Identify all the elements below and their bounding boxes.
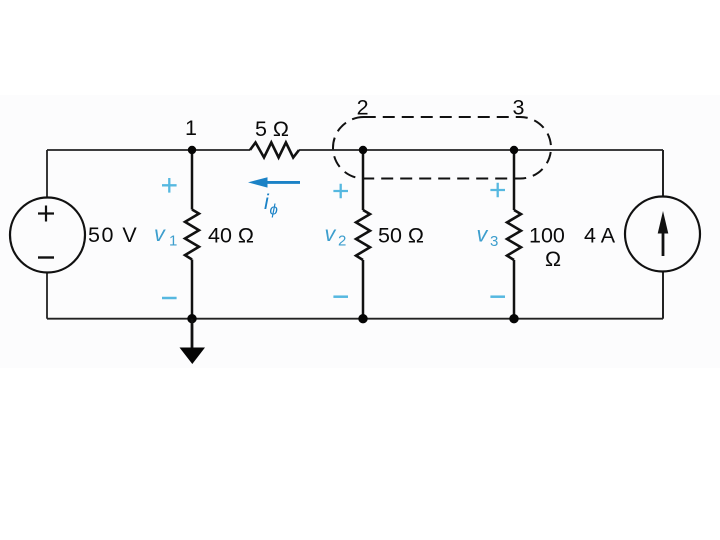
bottom node dot c bbox=[509, 314, 518, 323]
plus v2 bbox=[333, 184, 348, 199]
wire right vertical top bbox=[662, 150, 664, 197]
wire left vertical top bbox=[46, 150, 48, 198]
wire branch node3 down bbox=[513, 150, 516, 210]
svg-text:5 Ω: 5 Ω bbox=[255, 117, 289, 141]
wire branch node1 lower bbox=[191, 260, 194, 319]
plus v1 bbox=[162, 178, 177, 193]
svg-text:2: 2 bbox=[357, 96, 369, 120]
wire top rail right segment bbox=[299, 149, 663, 151]
svg-text:100: 100 bbox=[529, 224, 565, 248]
voltage source V 50V bbox=[10, 198, 85, 273]
node 3 dot bbox=[510, 146, 518, 154]
ground bbox=[191, 319, 194, 349]
bottom node dot a bbox=[187, 314, 196, 323]
dashed supernode boundary bbox=[333, 117, 551, 179]
svg-text:3: 3 bbox=[513, 96, 525, 120]
node 2 dot bbox=[359, 146, 367, 154]
svg-text:4 A: 4 A bbox=[584, 224, 616, 248]
svg-text:50 Ω: 50 Ω bbox=[378, 224, 424, 248]
svg-text:1: 1 bbox=[169, 233, 177, 250]
resistor R3 100ohm bbox=[507, 210, 521, 260]
minus v2 bbox=[333, 295, 348, 298]
current arrow i_phi bbox=[266, 181, 300, 184]
resistor R 5ohm bbox=[250, 143, 299, 158]
wire branch node3 lower bbox=[513, 260, 516, 319]
svg-text:v: v bbox=[325, 222, 337, 246]
svg-text:v: v bbox=[477, 223, 489, 247]
minus v1 bbox=[162, 297, 177, 300]
resistor R2 50ohm bbox=[356, 210, 370, 260]
plus v3 bbox=[490, 183, 505, 198]
wire left vertical bottom bbox=[46, 272, 48, 319]
wire right vertical bottom bbox=[662, 272, 664, 319]
svg-text:v: v bbox=[154, 222, 166, 246]
current source I 4A bbox=[625, 197, 700, 272]
svg-text:3: 3 bbox=[490, 233, 498, 250]
wire branch node2 lower bbox=[362, 260, 365, 319]
bottom node dot b bbox=[358, 314, 367, 323]
wire branch node2 down bbox=[362, 150, 365, 210]
svg-text:2: 2 bbox=[338, 233, 346, 250]
resistor R1 40ohm bbox=[185, 210, 199, 260]
svg-text:50 V: 50 V bbox=[88, 223, 138, 247]
svg-text:Ω: Ω bbox=[545, 247, 561, 271]
node 1 dot bbox=[188, 146, 196, 154]
wire branch node1 down bbox=[191, 150, 194, 210]
wire bottom rail bbox=[47, 318, 663, 320]
wire top rail left segment bbox=[47, 149, 250, 151]
svg-text:40 Ω: 40 Ω bbox=[208, 224, 254, 248]
svg-text:ϕ: ϕ bbox=[270, 202, 278, 219]
svg-text:1: 1 bbox=[185, 116, 197, 140]
minus v3 bbox=[490, 295, 505, 298]
